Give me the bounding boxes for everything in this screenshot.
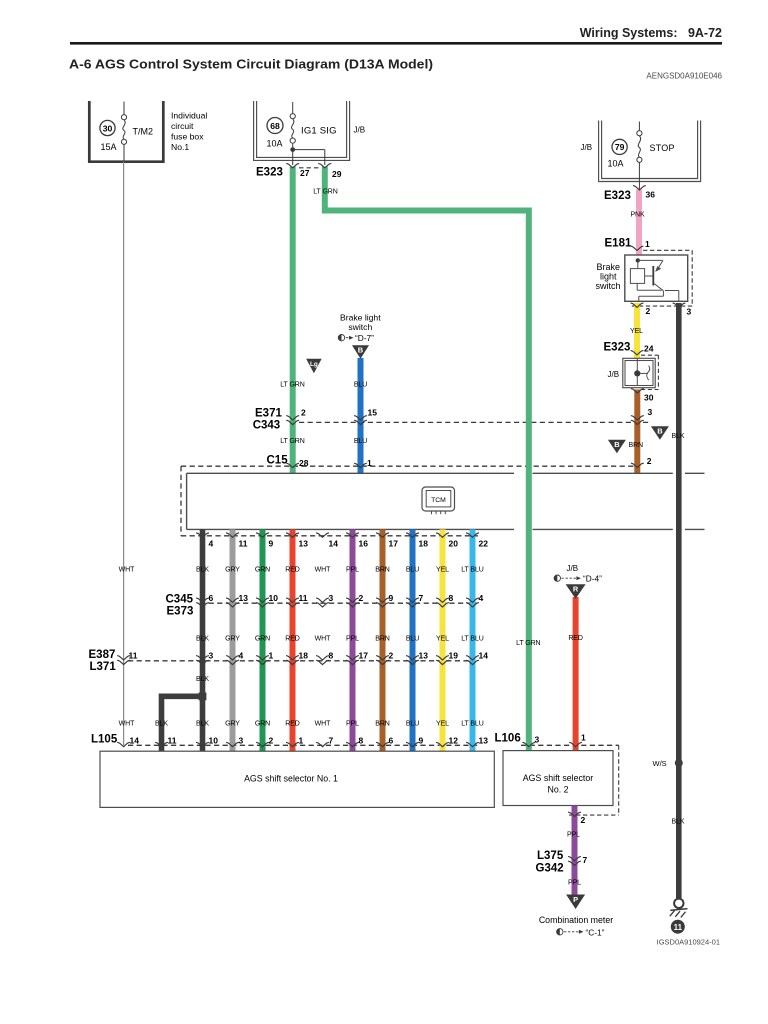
svg-text:29: 29 <box>332 169 342 179</box>
svg-text:“D-4”: “D-4” <box>583 574 602 584</box>
svg-text:PPL: PPL <box>346 721 359 728</box>
svg-text:Wiring Systems: 9A-72: Wiring Systems: 9A-72 <box>580 26 722 40</box>
svg-text:9: 9 <box>389 593 394 603</box>
eye symbol to D-7 <box>338 335 344 341</box>
svg-text:BLK: BLK <box>196 567 209 574</box>
svg-text:LT BLU: LT BLU <box>461 567 484 574</box>
svg-text:10: 10 <box>269 593 279 603</box>
svg-text:1: 1 <box>367 458 372 468</box>
wire RED from TCM to AGS shift selector No.1 <box>290 529 296 751</box>
svg-text:BRN: BRN <box>375 721 390 728</box>
svg-text:2: 2 <box>269 736 274 746</box>
fuse element IG1 SIG <box>292 102 294 114</box>
svg-text:10A: 10A <box>267 138 283 148</box>
svg-text:20: 20 <box>449 539 459 549</box>
svg-text:14: 14 <box>329 539 339 549</box>
wire WHT from fuse 30 down to L105 pin 14 <box>123 162 125 746</box>
svg-text:C345: C345 <box>166 594 194 606</box>
L106 chevrons and pins <box>523 742 535 746</box>
svg-text:E181: E181 <box>605 238 632 250</box>
svg-text:PPL: PPL <box>346 567 359 574</box>
svg-text:E371: E371 <box>255 408 282 420</box>
svg-text:1: 1 <box>299 736 304 746</box>
svg-text:P: P <box>573 895 578 904</box>
svg-text:BLU: BLU <box>354 438 367 445</box>
svg-text:J/B: J/B <box>354 126 366 135</box>
svg-text:2: 2 <box>647 456 652 466</box>
svg-text:8: 8 <box>359 736 364 746</box>
chevron BRN at C15 (pin 2) <box>631 463 643 467</box>
svg-text:68: 68 <box>270 121 280 131</box>
svg-text:11: 11 <box>129 651 138 661</box>
svg-text:BLK: BLK <box>155 721 168 728</box>
svg-text:10: 10 <box>209 736 219 746</box>
svg-text:WHT: WHT <box>119 567 135 574</box>
svg-text:No.1: No.1 <box>171 142 189 152</box>
svg-text:RED: RED <box>285 636 300 643</box>
svg-text:TCM: TCM <box>431 497 446 504</box>
wire YEL from switch pin 2 to E323-24 <box>634 303 640 359</box>
svg-text:GRN: GRN <box>255 567 270 574</box>
svg-text:J/B: J/B <box>608 370 620 379</box>
svg-text:Combination meter: Combination meter <box>539 915 613 925</box>
C345/E373 double chevrons and pins <box>197 598 209 602</box>
svg-text:13: 13 <box>419 651 429 661</box>
connector line E387/L371 (dashed) <box>128 660 470 662</box>
svg-text:18: 18 <box>419 539 429 549</box>
svg-text:18: 18 <box>299 651 309 661</box>
svg-text:4: 4 <box>239 651 244 661</box>
chevron E323-24 <box>631 351 643 355</box>
svg-text:BRN: BRN <box>375 636 390 643</box>
AGS shift selector No.2 box <box>503 751 613 806</box>
double chevrons at E371/C343 green and blue <box>287 416 299 420</box>
TCM connector dashed left edge <box>180 466 182 536</box>
svg-text:16: 16 <box>359 539 369 549</box>
E323 pins 27 / 29 dashes <box>299 167 319 169</box>
splice W/S on BLK wire <box>675 759 683 767</box>
svg-text:GRN: GRN <box>255 636 270 643</box>
svg-text:9: 9 <box>269 539 274 549</box>
svg-text:LT GRN: LT GRN <box>280 382 304 389</box>
svg-text:11: 11 <box>239 539 248 549</box>
svg-text:E323: E323 <box>604 342 631 354</box>
svg-text:LT GRN: LT GRN <box>280 438 304 445</box>
svg-text:A-6 AGS Control System Circuit: A-6 AGS Control System Circuit Diagram (… <box>69 58 433 72</box>
svg-text:AGS shift selector: AGS shift selector <box>523 773 593 783</box>
svg-text:14: 14 <box>479 651 489 661</box>
wire BRN from TCM to AGS shift selector No.1 <box>380 529 386 751</box>
svg-text:13: 13 <box>239 593 249 603</box>
svg-text:30: 30 <box>103 123 113 133</box>
wire BLU from TCM to AGS shift selector No.1 <box>410 529 416 751</box>
brake light switch outer dashed box <box>643 249 692 251</box>
svg-text:E323: E323 <box>604 190 631 202</box>
fuse number circle 68 <box>267 118 283 134</box>
svg-text:3: 3 <box>648 407 653 417</box>
TCM icon pins <box>431 511 433 514</box>
svg-text:7: 7 <box>329 736 334 746</box>
svg-text:2: 2 <box>389 651 394 661</box>
svg-text:9: 9 <box>419 736 424 746</box>
svg-text:1: 1 <box>645 239 650 249</box>
svg-text:12: 12 <box>449 736 459 746</box>
svg-text:LT GRN: LT GRN <box>516 640 540 647</box>
svg-text:C343: C343 <box>253 420 281 432</box>
svg-text:36: 36 <box>646 190 656 200</box>
svg-text:19: 19 <box>449 651 459 661</box>
AGS shift selector No.1 box <box>100 751 494 807</box>
svg-text:1: 1 <box>269 651 274 661</box>
svg-text:BLK: BLK <box>196 721 209 728</box>
svg-text:AENGSD0A910E046: AENGSD0A910E046 <box>646 72 722 81</box>
wire PPL from TCM to AGS shift selector No.1 <box>350 529 356 751</box>
svg-text:L106: L106 <box>495 733 521 745</box>
svg-text:BRN: BRN <box>629 442 644 449</box>
TCM box (solid, interrupted by black wire) <box>187 472 514 474</box>
svg-text:RED: RED <box>285 721 300 728</box>
wire GRY from TCM to AGS shift selector No.1 <box>230 529 236 751</box>
svg-text:1: 1 <box>581 733 586 743</box>
svg-text:Lg: Lg <box>310 361 318 368</box>
header rule <box>70 42 722 45</box>
svg-text:YEL: YEL <box>436 567 449 574</box>
link triangle B (left) <box>608 440 626 454</box>
svg-text:W/S: W/S <box>653 759 667 768</box>
svg-text:LT BLU: LT BLU <box>461 721 484 728</box>
svg-text:7: 7 <box>419 593 424 603</box>
svg-text:30: 30 <box>644 393 654 403</box>
svg-text:E323: E323 <box>256 167 283 179</box>
fuse number circle 30 <box>100 120 115 135</box>
svg-text:3: 3 <box>687 307 692 317</box>
switch contact inside J/B <box>636 359 638 371</box>
connector line C15 (dashed top of TCM connector) <box>181 465 634 467</box>
wire PPL from AGS No.2 pin 2 <box>572 806 578 896</box>
svg-text:J/B: J/B <box>567 564 579 573</box>
wire BRN from J/B 30 to TCM <box>634 390 640 474</box>
svg-text:“D-7”: “D-7” <box>355 333 374 343</box>
svg-text:17: 17 <box>359 651 369 661</box>
svg-text:2: 2 <box>581 815 586 825</box>
fuse box: Individual circuit fuse box No.1 (open-top box) <box>89 101 163 162</box>
junction block box STOP (double line, open top) <box>599 121 701 182</box>
svg-text:switch: switch <box>348 322 372 332</box>
svg-text:E387: E387 <box>89 649 116 661</box>
brake light switch internal contact <box>636 258 640 262</box>
svg-text:BLK: BLK <box>672 819 685 826</box>
L375/G342 double chevron pin 7 <box>569 857 581 861</box>
svg-text:GRY: GRY <box>225 636 240 643</box>
TCM connector dashed bottom <box>181 535 478 537</box>
connector line L105 (dashed) <box>128 744 478 746</box>
svg-text:4: 4 <box>479 593 484 603</box>
junction dot and branch to pin 29 <box>290 147 295 152</box>
svg-text:fuse box: fuse box <box>171 132 204 142</box>
brake light switch coil square <box>630 269 644 284</box>
svg-text:B: B <box>614 440 620 449</box>
svg-text:WHT: WHT <box>315 721 331 728</box>
svg-text:7: 7 <box>583 855 588 865</box>
svg-text:L105: L105 <box>91 734 118 746</box>
svg-text:AGS shift selector No. 1: AGS shift selector No. 1 <box>244 774 338 784</box>
svg-text:WHT: WHT <box>315 636 331 643</box>
chevron E323-36 <box>633 186 645 190</box>
svg-text:switch: switch <box>596 281 621 291</box>
svg-text:3: 3 <box>239 736 244 746</box>
wire LT BLU from TCM to AGS shift selector No.1 <box>470 529 476 751</box>
connector line E371/C343 (dashed) <box>299 421 649 423</box>
eye symbol to D-4 <box>554 575 560 581</box>
svg-text:T/M2: T/M2 <box>133 127 154 137</box>
wire PNK from E323-36 to brake light switch <box>636 190 642 262</box>
svg-text:No. 2: No. 2 <box>547 785 568 795</box>
svg-text:79: 79 <box>615 142 625 152</box>
E387/L371 double chevrons and pins <box>118 656 130 660</box>
svg-text:BLK: BLK <box>672 433 685 440</box>
svg-text:YEL: YEL <box>436 636 449 643</box>
svg-text:PPL: PPL <box>568 880 581 887</box>
svg-text:Individual: Individual <box>171 111 207 121</box>
svg-text:PPL: PPL <box>567 832 580 839</box>
J/B box with switch (E323 24/30) dashed shadow <box>641 354 658 356</box>
svg-text:28: 28 <box>299 458 309 468</box>
svg-text:2: 2 <box>359 593 364 603</box>
svg-text:11: 11 <box>674 923 683 932</box>
svg-text:11: 11 <box>168 736 177 746</box>
svg-text:6: 6 <box>389 736 394 746</box>
wire LT GRN from E323-27 down to TCM C15-28 <box>290 167 296 474</box>
eye symbol to C-1 <box>557 929 563 935</box>
svg-text:LT BLU: LT BLU <box>461 636 484 643</box>
svg-text:Brake: Brake <box>597 262 621 272</box>
svg-text:13: 13 <box>479 736 489 746</box>
svg-text:2: 2 <box>646 306 651 316</box>
svg-text:3: 3 <box>535 735 540 745</box>
wire YEL from TCM to AGS shift selector No.1 <box>440 529 446 751</box>
svg-text:Brake light: Brake light <box>340 313 381 323</box>
svg-text:circuit: circuit <box>171 121 194 131</box>
TCM pin chevrons at dashed bottom <box>197 533 209 537</box>
connector line C345/E373 (dashed) <box>200 602 477 604</box>
svg-text:GRY: GRY <box>225 721 240 728</box>
svg-text:E373: E373 <box>167 606 194 618</box>
svg-text:R: R <box>573 585 579 594</box>
brake light switch lower wiring <box>636 283 638 290</box>
svg-text:4: 4 <box>209 539 214 549</box>
svg-text:YEL: YEL <box>630 328 643 335</box>
wire GRN from TCM to AGS shift selector No.1 <box>260 529 266 751</box>
svg-text:3: 3 <box>329 593 334 603</box>
svg-text:IGSD0A910924-01: IGSD0A910924-01 <box>657 938 720 947</box>
svg-text:L371: L371 <box>90 661 117 673</box>
fuse number circle 79 <box>612 139 627 154</box>
svg-text:BRN: BRN <box>375 567 390 574</box>
svg-text:BLK: BLK <box>196 636 209 643</box>
svg-text:WHT: WHT <box>315 567 331 574</box>
link triangle P <box>566 895 585 910</box>
L105 chevrons <box>118 742 130 746</box>
brake light switch body <box>625 255 688 301</box>
svg-text:14: 14 <box>130 736 140 746</box>
chevron E181-1 <box>631 246 643 250</box>
junction block box IG1 SIG (double line, open top) <box>254 101 350 160</box>
svg-text:J/B: J/B <box>581 143 593 152</box>
svg-text:LT GRN: LT GRN <box>313 189 337 196</box>
chevron E323-30 <box>631 389 643 393</box>
svg-text:YEL: YEL <box>436 721 449 728</box>
link triangle B (right) <box>651 426 669 440</box>
svg-text:“C-1”: “C-1” <box>586 928 605 938</box>
link triangle Lg <box>306 359 322 374</box>
J/B box with switch (double rect) <box>623 358 655 387</box>
svg-text:GRY: GRY <box>225 567 240 574</box>
svg-text:BLU: BLU <box>406 636 419 643</box>
svg-text:GRN: GRN <box>255 721 270 728</box>
ground number badge 11 <box>671 920 685 934</box>
svg-text:PNK: PNK <box>630 212 645 219</box>
svg-text:24: 24 <box>644 344 654 354</box>
wire BLK from switch pin 3 to ground <box>676 303 682 898</box>
wire RED from J/B to L106-1 <box>573 597 579 751</box>
svg-text:15: 15 <box>368 408 378 418</box>
svg-text:10A: 10A <box>608 159 624 169</box>
svg-text:13: 13 <box>299 539 309 549</box>
svg-text:22: 22 <box>479 539 489 549</box>
svg-text:3: 3 <box>209 651 214 661</box>
svg-text:2: 2 <box>301 408 306 418</box>
fuse element STOP <box>638 122 640 131</box>
svg-text:8: 8 <box>329 651 334 661</box>
svg-text:BLU: BLU <box>406 721 419 728</box>
C15 pin chevrons and numbers <box>287 463 299 467</box>
svg-text:RED: RED <box>568 635 583 642</box>
svg-text:11: 11 <box>299 593 308 603</box>
chevrons E181 pins 2,3 <box>631 303 643 307</box>
svg-text:STOP: STOP <box>650 143 675 153</box>
svg-text:B: B <box>358 346 364 355</box>
fuse element T/M2 <box>123 102 125 115</box>
svg-text:C15: C15 <box>267 455 289 467</box>
svg-text:BLK: BLK <box>196 676 209 683</box>
svg-text:15A: 15A <box>101 142 117 152</box>
svg-text:WHT: WHT <box>119 721 135 728</box>
svg-text:6: 6 <box>209 593 214 603</box>
svg-text:B: B <box>657 427 663 436</box>
chevron pin 2 <box>569 812 581 816</box>
wire BLU from triangle B to TCM C15-1 <box>358 358 364 473</box>
svg-text:BLU: BLU <box>406 567 419 574</box>
svg-text:27: 27 <box>300 168 310 178</box>
svg-text:light: light <box>600 272 617 282</box>
svg-text:PPL: PPL <box>346 636 359 643</box>
connector line L106 (dashed) <box>521 744 619 746</box>
ground symbol <box>674 899 683 908</box>
svg-text:17: 17 <box>389 539 399 549</box>
svg-text:G342: G342 <box>536 863 564 875</box>
wire BLK from TCM pin 4 with branch elbow <box>200 529 206 751</box>
TCM icon <box>422 487 455 511</box>
AGS shift selector No.2 dashed box <box>618 745 620 815</box>
svg-text:L375: L375 <box>537 850 564 862</box>
wire LT GRN from E323-29: down, right, down to L106-3 <box>325 167 529 751</box>
svg-text:BLU: BLU <box>354 382 367 389</box>
svg-text:IG1 SIG: IG1 SIG <box>301 126 337 137</box>
E323 pin chevrons 27 29 <box>287 164 299 168</box>
double chevron BRN at E371/C343 (pin 3) <box>631 416 643 420</box>
svg-text:8: 8 <box>449 593 454 603</box>
svg-text:RED: RED <box>285 567 300 574</box>
